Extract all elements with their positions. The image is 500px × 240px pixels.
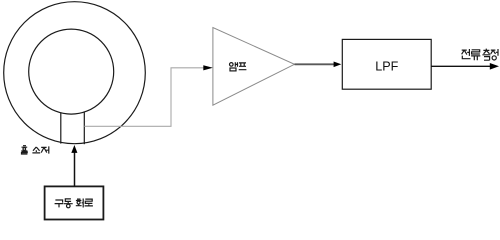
svg-text:LPF: LPF xyxy=(375,59,398,73)
